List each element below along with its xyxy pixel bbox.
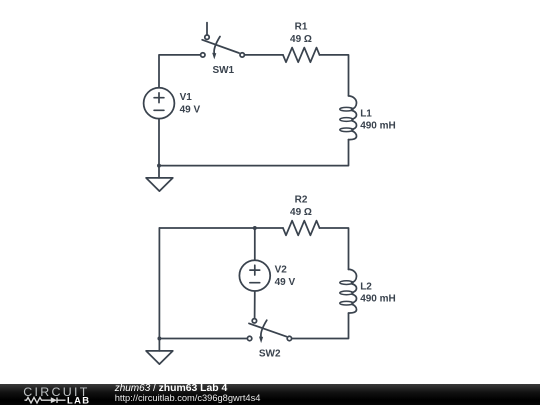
voltage source V1 bbox=[144, 88, 175, 119]
inductor L2 bbox=[340, 269, 357, 313]
svg-text:LAB: LAB bbox=[67, 395, 90, 405]
CircuitLab logo bbox=[0, 384, 110, 405]
footer title text bbox=[115, 384, 228, 394]
wire junction to SW2 left terminal bbox=[159, 338, 247, 340]
footer url text bbox=[115, 393, 261, 403]
switch SW1 bbox=[201, 23, 245, 60]
svg-text:L1: L1 bbox=[360, 108, 372, 119]
wire V2 bottom to SW2 top terminal bbox=[254, 291, 256, 318]
svg-text:49 Ω: 49 Ω bbox=[290, 34, 312, 45]
svg-text:R2: R2 bbox=[295, 195, 308, 206]
svg-text:49 Ω: 49 Ω bbox=[290, 207, 312, 218]
resistor R1 bbox=[283, 48, 320, 63]
svg-text:490 mH: 490 mH bbox=[360, 120, 396, 131]
wire L1 bottom to bottom rail bbox=[159, 140, 349, 166]
svg-text:L2: L2 bbox=[360, 281, 372, 292]
svg-text:SW2: SW2 bbox=[259, 348, 281, 359]
svg-text:R1: R1 bbox=[295, 22, 308, 33]
junction node top circuit bbox=[157, 164, 161, 168]
footer bar bbox=[0, 384, 540, 405]
svg-text:V2: V2 bbox=[275, 265, 288, 276]
wire junction to V2 top bbox=[254, 228, 256, 260]
resistor R2 bbox=[283, 221, 320, 236]
junction node bottom circuit bbox=[157, 337, 161, 341]
wire V1 bottom to junction bbox=[158, 119, 160, 166]
wire SW1 to R1 bbox=[245, 54, 283, 56]
wire left rail bottom circuit bbox=[158, 228, 160, 339]
wire L2 bottom to SW2 right terminal bbox=[292, 313, 349, 338]
voltage source V2 bbox=[239, 260, 270, 291]
wire from V1 top to SW1 left terminal bbox=[159, 55, 200, 88]
wire top rail junction to R2 bbox=[255, 227, 283, 229]
ground top circuit bbox=[146, 166, 173, 192]
wire bottom circuit top rail left bbox=[159, 227, 254, 229]
inductor L1 bbox=[340, 96, 357, 140]
junction node V2 branch bbox=[253, 226, 257, 230]
svg-text:49 V: 49 V bbox=[275, 277, 296, 288]
svg-text:SW1: SW1 bbox=[212, 65, 234, 76]
svg-text:V1: V1 bbox=[180, 92, 193, 103]
switch SW2 bbox=[247, 319, 291, 344]
svg-text:490 mH: 490 mH bbox=[360, 293, 396, 304]
svg-text:49 V: 49 V bbox=[180, 104, 201, 115]
wire R1 to L1 top bbox=[320, 55, 349, 96]
wire R2 to L2 top bbox=[320, 228, 349, 270]
ground bottom circuit bbox=[146, 339, 173, 365]
